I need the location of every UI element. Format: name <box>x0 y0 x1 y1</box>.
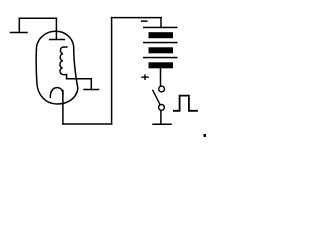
tube V1 envelope <box>36 31 78 104</box>
battery B1 bar (thick 2) <box>149 47 174 53</box>
battery B1 plus label <box>141 74 149 80</box>
grid coil (inside tube, right side) <box>60 47 67 79</box>
battery B1 bar (thick 1) <box>149 32 174 38</box>
battery B1 plate (thin, middle) <box>143 42 178 44</box>
plate (anode bar inside tube) <box>50 39 64 41</box>
wire (cathode lead down out of tube) <box>62 91 64 125</box>
wire (grid coil out to right terminal) <box>67 79 92 90</box>
wire (bottom horizontal) <box>63 123 112 125</box>
switch S1 bottom contact circle <box>159 105 165 111</box>
battery B1 bar (thick 3) <box>149 62 174 68</box>
battery B1 plate (thin, bottom) <box>143 57 178 59</box>
battery B1 minus label <box>141 20 148 22</box>
ground (bar under switch) <box>153 123 171 125</box>
terminal T2 (right-side terminal bar) <box>84 89 99 91</box>
wire (plate lead down into tube) <box>55 18 57 39</box>
wire (battery to switch) <box>160 68 162 86</box>
switch S1 top contact circle <box>159 86 165 92</box>
wire (down to battery top plate) <box>160 18 162 28</box>
pulse waveform annotation <box>174 96 197 111</box>
cathode (arc inside tube bottom) <box>50 88 63 98</box>
wire (top horizontal to battery) <box>112 17 161 19</box>
artifact dot (bottom-right corner) <box>204 134 207 137</box>
terminal T1 (top-left input terminal bar) <box>11 18 28 32</box>
wire (switch to ground) <box>160 110 162 124</box>
wire (right riser up) <box>111 18 113 124</box>
wire (top-left horizontal to tube plate lead) <box>19 17 56 19</box>
switch S1 lever (open blade) <box>153 90 160 104</box>
battery B1 plate (thin, top) <box>143 27 178 29</box>
